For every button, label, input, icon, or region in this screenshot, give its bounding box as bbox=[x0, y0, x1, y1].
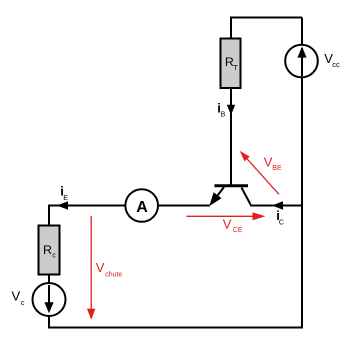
svg-text:C: C bbox=[279, 219, 284, 226]
voltage arrow V_BE bbox=[240, 151, 279, 195]
svg-text:cc: cc bbox=[332, 60, 340, 69]
svg-text:chute: chute bbox=[105, 271, 122, 278]
label V_c bbox=[12, 289, 25, 307]
svg-text:V: V bbox=[96, 260, 105, 275]
svg-text:CE: CE bbox=[233, 227, 243, 234]
transistor Q1 bbox=[209, 186, 250, 206]
wire emitter row bbox=[48, 205, 210, 207]
current arrow i_B bbox=[227, 105, 235, 115]
svg-text:E: E bbox=[63, 195, 68, 202]
svg-text:V: V bbox=[12, 289, 21, 304]
svg-text:V: V bbox=[223, 217, 232, 232]
svg-text:R: R bbox=[43, 243, 52, 257]
svg-text:BE: BE bbox=[272, 165, 282, 172]
voltage arrow V_CE bbox=[187, 212, 266, 220]
wire collector row bbox=[250, 205, 302, 207]
label V_chute bbox=[96, 260, 123, 278]
label i_E bbox=[60, 184, 68, 203]
label V_cc bbox=[324, 51, 340, 69]
label V_BE bbox=[264, 154, 282, 172]
label i_B bbox=[217, 100, 225, 118]
wire left vertical bbox=[48, 205, 50, 328]
current arrow i_E bbox=[57, 201, 68, 210]
source V_c bbox=[33, 283, 66, 316]
current arrow i_C bbox=[272, 201, 283, 210]
label V_CE bbox=[223, 217, 243, 235]
source V_cc bbox=[285, 45, 318, 78]
resistor R_c bbox=[39, 226, 60, 275]
svg-text:B: B bbox=[221, 112, 226, 119]
wire top-left vertical to R_T bbox=[230, 17, 232, 40]
label i_C bbox=[276, 208, 284, 226]
wire R_T bottom to transistor base bbox=[230, 87, 232, 186]
voltage arrow V_chute bbox=[87, 216, 95, 320]
wire bottom horizontal bbox=[48, 327, 303, 329]
resistor R_T bbox=[221, 39, 241, 89]
svg-text:c: c bbox=[21, 298, 25, 307]
svg-text:T: T bbox=[233, 65, 238, 72]
svg-text:c: c bbox=[52, 252, 56, 259]
ammeter A bbox=[125, 189, 158, 222]
wire top horizontal bbox=[231, 17, 302, 19]
wire right vertical bbox=[301, 18, 303, 328]
svg-text:A: A bbox=[136, 199, 148, 216]
